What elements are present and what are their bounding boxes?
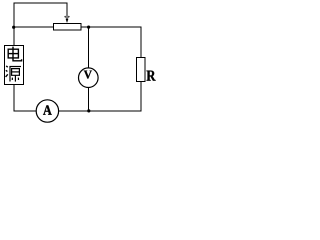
rheostat RP body xyxy=(54,24,82,31)
slider arrowhead left barb xyxy=(64,16,67,18)
wire bottom horizontal left xyxy=(14,110,37,112)
ammeter A1 circle xyxy=(36,100,58,122)
wire top horizontal xyxy=(14,2,68,4)
wire left vertical upper xyxy=(13,3,15,47)
voltmeter U1 circle xyxy=(79,68,99,88)
node junction left xyxy=(12,26,15,29)
wire voltmeter lower lead xyxy=(88,88,90,112)
node junction voltmeter bottom xyxy=(87,109,90,112)
wire bottom horizontal right xyxy=(59,110,142,112)
ammeter label A xyxy=(43,105,52,114)
slider arrowhead right barb xyxy=(68,16,71,18)
wire voltmeter upper lead xyxy=(88,27,90,68)
wire right vertical upper xyxy=(140,27,142,58)
resistor label R xyxy=(147,71,156,81)
voltmeter label V xyxy=(84,71,92,79)
glyph 电 xyxy=(8,47,21,61)
wire right horizontal xyxy=(81,26,142,28)
resistor R body xyxy=(137,58,146,82)
glyph 源 xyxy=(6,66,21,82)
slider arrowhead xyxy=(66,19,69,23)
wire right vertical lower xyxy=(140,82,142,112)
wire slider vertical drop xyxy=(66,3,68,22)
wire left vertical lower xyxy=(13,85,15,112)
node junction voltmeter top xyxy=(87,26,90,29)
wire middle-left horizontal xyxy=(14,26,54,28)
battery box 电源 xyxy=(5,46,24,85)
